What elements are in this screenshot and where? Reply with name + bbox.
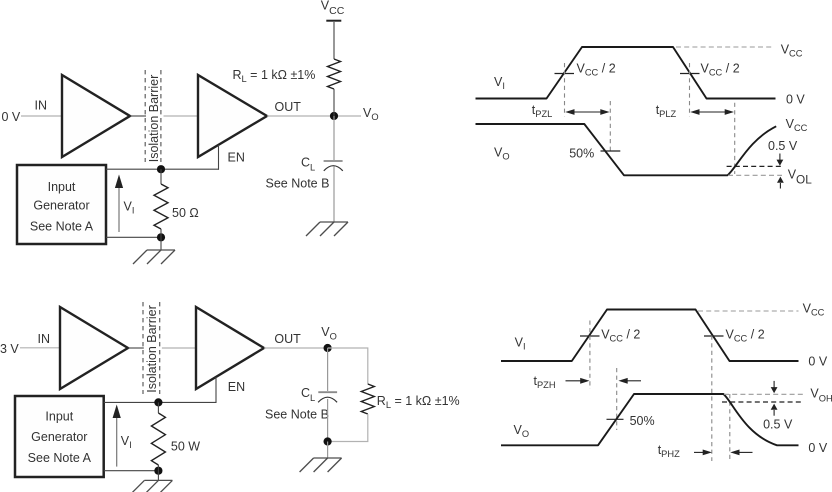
tPZL arrow xyxy=(565,109,609,115)
label VCC top right xyxy=(781,43,803,59)
wire resistor 50W to ground 4 xyxy=(157,465,159,480)
pin label IN xyxy=(35,99,48,113)
input generator box xyxy=(17,165,106,244)
arrow down to VOH line xyxy=(771,381,778,393)
capacitor CL2 note label xyxy=(265,408,329,422)
svg-text:OUT: OUT xyxy=(274,332,301,346)
wire generator 2 bottom to node xyxy=(104,470,159,472)
label 0V for VO bottom xyxy=(808,441,827,455)
power VCC rail bar xyxy=(326,20,341,22)
resistor RL value label xyxy=(233,68,316,84)
wire resistor 50 to node xyxy=(160,229,162,250)
node VO label xyxy=(363,106,379,122)
svg-text:50 Ω: 50 Ω xyxy=(172,206,199,220)
ground under CL xyxy=(306,222,348,236)
dashed vertical rise mid xyxy=(564,63,566,117)
waveform VO label xyxy=(494,146,510,162)
waveform VI bottom xyxy=(501,310,799,362)
label VCC/2 falling xyxy=(701,62,740,78)
svg-text:50 W: 50 W xyxy=(171,439,200,453)
svg-text:EN: EN xyxy=(228,380,245,394)
node CL2 bottom junction dot xyxy=(324,437,332,445)
tick VCC/2 rising bottom xyxy=(580,335,600,337)
ground under 50W xyxy=(130,480,172,492)
wire barrier to buffer U2 xyxy=(164,115,199,117)
wire node VO2 to capacitor CL2 xyxy=(327,348,329,391)
dashed vertical VO rise mid bottom xyxy=(616,368,618,430)
svg-text:VI: VI xyxy=(121,434,132,450)
tPHZ arrows xyxy=(694,450,753,456)
arrow up to 0.5V line bottom xyxy=(771,404,778,416)
svg-text:RL = 1 kΩ ±1%: RL = 1 kΩ ±1% xyxy=(233,68,316,84)
waveform VO bottom label xyxy=(514,423,530,439)
svg-text:EN: EN xyxy=(228,151,245,165)
pin label OUT xyxy=(275,100,302,114)
svg-text:VCC / 2: VCC / 2 xyxy=(577,62,616,78)
svg-text:IN: IN xyxy=(38,332,51,346)
tPZH arrows xyxy=(566,378,642,384)
label VCC/2 rising bottom xyxy=(601,328,640,344)
svg-text:VI: VI xyxy=(515,336,526,352)
svg-text:50%: 50% xyxy=(569,147,594,161)
svg-text:tPZL: tPZL xyxy=(532,103,553,119)
wire capacitor CL to ground xyxy=(333,167,335,223)
dashed vertical fall mid bottom xyxy=(711,336,713,461)
tick 50% xyxy=(601,150,621,152)
label 0.5V bottom xyxy=(763,418,793,432)
svg-text:Isolation Barrier: Isolation Barrier xyxy=(145,305,159,393)
label 50% bottom xyxy=(630,414,655,428)
tPZH label xyxy=(534,374,556,390)
svg-text:VCC / 2: VCC / 2 xyxy=(701,62,740,78)
wire input to buffer 3 xyxy=(20,347,60,349)
node input 0V label xyxy=(2,110,21,124)
tick VCC/2 falling xyxy=(680,73,700,75)
svg-text:Isolation Barrier: Isolation Barrier xyxy=(147,75,161,163)
svg-text:OUT: OUT xyxy=(275,100,302,114)
capacitor CL2 xyxy=(318,392,337,402)
svg-text:VCC: VCC xyxy=(321,0,345,17)
power VCC label xyxy=(321,0,345,17)
tick VCC/2 falling bottom xyxy=(704,335,724,337)
pin label EN xyxy=(228,151,245,165)
wire capacitor CL2 to node xyxy=(327,399,329,442)
label VOL xyxy=(788,168,813,187)
wire node VO to capacitor CL xyxy=(333,116,335,160)
svg-text:VCC: VCC xyxy=(781,43,803,59)
node junction dot 50ohm top xyxy=(157,165,165,173)
VI arrow annotation 2 xyxy=(113,405,121,467)
dashed vertical VO fall mid xyxy=(609,101,611,154)
node junction dot 50W top xyxy=(154,398,162,406)
waveform VO top xyxy=(476,124,777,175)
svg-text:0.5 V: 0.5 V xyxy=(763,418,793,432)
isolation barrier 2 dashed lines xyxy=(143,302,160,394)
svg-text:VO: VO xyxy=(494,146,510,162)
svg-text:tPLZ: tPLZ xyxy=(656,103,677,119)
capacitor CL2 label xyxy=(301,386,315,403)
svg-text:CL: CL xyxy=(301,155,315,172)
VI arrow label 2 xyxy=(121,434,132,450)
svg-text:CL: CL xyxy=(301,386,315,403)
wire generator bottom to node xyxy=(106,236,161,238)
resistor RL2 xyxy=(361,384,374,414)
svg-text:VCC / 2: VCC / 2 xyxy=(601,328,640,344)
waveform VI bottom label xyxy=(515,336,526,352)
svg-text:VI: VI xyxy=(124,200,135,216)
resistor RL2 value label xyxy=(377,394,460,410)
svg-text:See Note B: See Note B xyxy=(265,408,329,422)
wire OUT to node VO xyxy=(267,115,361,117)
label 50% xyxy=(569,147,594,161)
svg-text:Generator: Generator xyxy=(31,430,87,444)
dashed VOH level xyxy=(724,393,804,395)
capacitor CL xyxy=(324,161,343,171)
VI arrow label xyxy=(124,200,135,216)
VI arrow annotation xyxy=(115,175,123,233)
svg-text:Input: Input xyxy=(45,410,73,424)
label VCC/2 rising xyxy=(577,62,616,78)
resistor 50W value label xyxy=(171,439,200,453)
pin label IN 2 xyxy=(38,332,51,346)
arrow up to VOL line xyxy=(777,177,784,189)
waveform VI label xyxy=(494,75,505,91)
svg-text:See Note B: See Note B xyxy=(266,177,330,191)
buffer U3 input driver xyxy=(60,307,128,389)
tick VCC/2 rising xyxy=(555,73,575,75)
resistor R 50W xyxy=(151,413,165,465)
dashed vertical fall mid xyxy=(689,63,691,117)
label VCC at curve xyxy=(786,117,808,133)
label 0V top right xyxy=(786,93,805,107)
svg-text:See Note A: See Note A xyxy=(28,451,92,465)
dashed VCC level bottom xyxy=(698,310,799,312)
node junction dot 50W bottom xyxy=(154,467,162,475)
svg-text:tPZH: tPZH xyxy=(534,374,556,390)
svg-text:VO: VO xyxy=(363,106,379,122)
ground under 50 ohm xyxy=(133,250,175,264)
buffer U1 input driver xyxy=(62,75,130,157)
node VO2 junction dot xyxy=(324,344,332,352)
node VO junction dot xyxy=(330,112,338,120)
label VCC/2 falling bottom xyxy=(726,328,765,344)
svg-text:VO: VO xyxy=(321,325,337,341)
label VOH xyxy=(810,386,832,403)
svg-text:VOH: VOH xyxy=(810,386,832,403)
input generator 2 text xyxy=(28,410,92,466)
svg-text:0 V: 0 V xyxy=(808,441,827,455)
label 0.5V xyxy=(768,139,798,153)
wire generator to EN xyxy=(106,168,219,170)
node junction dot 50ohm bottom xyxy=(157,233,165,241)
dashed vertical VO fall point bottom xyxy=(729,394,731,461)
tick 50% bottom xyxy=(607,418,624,420)
wire input to buffer 1 xyxy=(21,115,62,117)
svg-text:0 V: 0 V xyxy=(808,355,827,369)
svg-text:See Note A: See Note A xyxy=(30,219,94,233)
wire generator 2 to EN 2 xyxy=(104,401,216,403)
svg-text:Input: Input xyxy=(48,180,76,194)
wire resistor RL to node VO xyxy=(333,89,335,116)
tPLZ label xyxy=(656,103,677,119)
node input 3V label xyxy=(0,342,19,356)
svg-text:tPHZ: tPHZ xyxy=(658,443,680,459)
resistor R 50 ohm xyxy=(154,184,168,229)
buffer U4 output driver xyxy=(196,307,264,389)
wire VCC to resistor RL xyxy=(333,22,335,59)
wire EN pin 2 xyxy=(215,377,217,403)
svg-text:VOL: VOL xyxy=(788,168,813,187)
tPHZ label xyxy=(658,443,680,459)
buffer U2 output driver xyxy=(198,75,267,157)
svg-text:0 V: 0 V xyxy=(2,110,21,124)
svg-text:VO: VO xyxy=(514,423,530,439)
svg-text:VCC: VCC xyxy=(786,117,808,133)
label 0V for VI bottom xyxy=(808,355,827,369)
resistor 50 value label xyxy=(172,206,199,220)
dashed VCC level top xyxy=(676,46,772,48)
input generator box 2 xyxy=(15,396,104,477)
svg-text:RL = 1 kΩ ±1%: RL = 1 kΩ ±1% xyxy=(377,394,460,410)
pin label EN 2 xyxy=(228,380,245,394)
svg-text:VCC / 2: VCC / 2 xyxy=(726,328,765,344)
wire junction to resistor 50 xyxy=(160,169,162,184)
isolation barrier dashed lines xyxy=(145,70,161,162)
svg-text:VCC: VCC xyxy=(803,302,825,318)
dashed VOL level xyxy=(728,174,782,176)
svg-text:Generator: Generator xyxy=(33,199,89,213)
wire U3 output to isolation barrier 2 xyxy=(128,347,144,349)
resistor RL xyxy=(328,59,341,89)
node VO2 label xyxy=(321,325,337,341)
ground under CL2 xyxy=(300,458,342,472)
svg-text:0 V: 0 V xyxy=(786,93,805,107)
svg-text:IN: IN xyxy=(35,99,48,113)
wire RL2 bottom to node xyxy=(328,414,368,442)
label VCC bottom right xyxy=(803,302,825,318)
wire EN pin xyxy=(218,145,220,170)
isolation barrier label xyxy=(147,75,161,163)
dashed vertical VO rise point xyxy=(734,103,736,174)
dashed vertical rise mid bottom xyxy=(589,321,591,390)
tPZL label xyxy=(532,103,553,119)
pin label OUT 2 xyxy=(274,332,301,346)
wire node to ground 3 xyxy=(327,442,329,459)
svg-text:0.5 V: 0.5 V xyxy=(768,139,798,153)
waveform VO bottom xyxy=(501,394,799,445)
wire junction to resistor 50W xyxy=(157,402,159,413)
isolation barrier 2 label xyxy=(145,305,159,393)
dashed black 0.5V level bottom xyxy=(722,401,801,403)
capacitor CL label xyxy=(301,155,315,172)
wire OUT 2 to node VO2 xyxy=(264,347,328,349)
input generator text xyxy=(30,180,94,234)
arrow down to 0.5V line xyxy=(777,154,784,166)
wire barrier 2 to buffer U4 xyxy=(162,347,196,349)
wire node VO2 to RL2 top xyxy=(328,348,368,384)
wire U1 output to isolation barrier xyxy=(130,115,146,117)
capacitor CL note label xyxy=(266,177,330,191)
dashed black 0.5V level xyxy=(727,165,782,167)
waveform VI top xyxy=(476,47,776,99)
svg-text:50%: 50% xyxy=(630,414,655,428)
tPLZ arrow xyxy=(690,109,734,115)
svg-text:3 V: 3 V xyxy=(0,342,19,356)
svg-text:VI: VI xyxy=(494,75,505,91)
